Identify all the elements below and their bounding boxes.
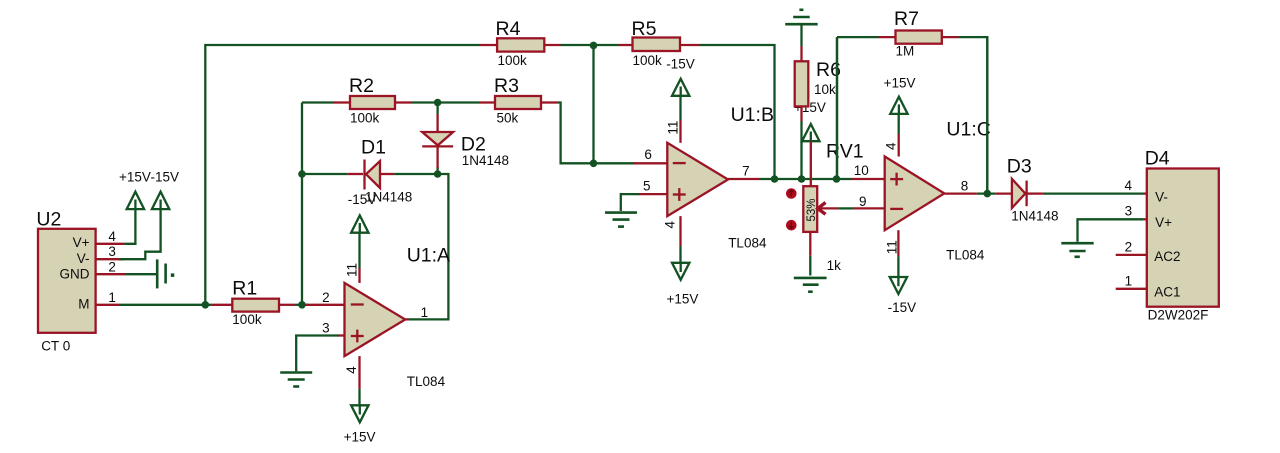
resistor R2 (334, 75, 411, 126)
svg-text:53%: 53% (806, 198, 818, 221)
power +15V arrow below U1:B (667, 263, 699, 307)
pin 1 of D4 (1116, 288, 1147, 290)
svg-text:4: 4 (344, 366, 359, 374)
pin 10 of U1:C (852, 178, 885, 180)
svg-text:-15V: -15V (666, 57, 695, 72)
pin 4 of U1:A (344, 356, 360, 409)
svg-text:5: 5 (643, 179, 651, 194)
svg-text:6: 6 (644, 147, 652, 162)
svg-text:100k: 100k (633, 53, 663, 68)
svg-text:1M: 1M (896, 44, 915, 59)
resistor R3 (479, 75, 557, 126)
wire D1 right to D2 junction and corner down to pin1 (394, 174, 448, 319)
pin 3 of D4 (1144, 218, 1147, 220)
pin 1 of U2 (96, 304, 119, 306)
svg-text:AC2: AC2 (1154, 249, 1180, 264)
svg-text:50k: 50k (497, 111, 519, 126)
svg-text:+15V: +15V (884, 75, 916, 90)
svg-text:1N4148: 1N4148 (462, 153, 509, 168)
svg-text:4: 4 (662, 221, 677, 229)
pin 11 of U1:A (345, 229, 360, 283)
wire vertical feedback left leg (301, 103, 303, 305)
node feedback left junction (298, 170, 306, 178)
op-amp U1:A TL084 (345, 245, 451, 390)
node R1/pin2/feedback junction (298, 301, 306, 309)
svg-text:V-: V- (1155, 190, 1168, 205)
svg-text:1: 1 (421, 305, 429, 320)
svg-text:11: 11 (666, 121, 681, 135)
svg-text:R1: R1 (232, 278, 257, 300)
wire U2 pin3 jog to -15V arrow (119, 206, 161, 259)
svg-text:D1: D1 (361, 137, 386, 159)
power -15V arrow at U2 (151, 170, 180, 210)
node pin6 junction (590, 160, 598, 168)
svg-text:U2: U2 (36, 209, 61, 231)
ground below RV1 (794, 278, 827, 292)
node R4/R5 junction (590, 42, 598, 50)
power +15V arrow above RV1 (802, 124, 820, 141)
wire RV1 wiper to U1:C pin9 (818, 207, 839, 209)
pin 4 of U1:B (662, 216, 680, 266)
svg-text:11: 11 (345, 263, 360, 277)
power -15V arrow below U1:C (888, 277, 917, 315)
node R2/R3/D2 junction (434, 99, 442, 107)
svg-text:1k: 1k (827, 258, 842, 273)
svg-text:R7: R7 (894, 8, 919, 30)
svg-text:CT 0: CT 0 (41, 339, 70, 354)
svg-text:9: 9 (859, 194, 867, 209)
pin 5 of U1:B (638, 193, 668, 195)
power +15V arrow below U1:A (344, 405, 376, 444)
svg-text:R5: R5 (632, 18, 657, 40)
power +15V arrow at U2 (119, 170, 151, 210)
svg-text:4: 4 (1125, 178, 1133, 193)
svg-text:TL084: TL084 (728, 236, 767, 251)
svg-text:RV1: RV1 (826, 141, 864, 163)
wire D2 top green (436, 103, 438, 115)
wire U2 pin4 to +15V arrow (124, 206, 135, 244)
pin 8 of U1:C output (944, 192, 976, 194)
flipped ground above R6 (785, 10, 818, 46)
pin 4 of U1:C (884, 110, 899, 157)
wire R1 right to U1:A pin2 (295, 304, 308, 306)
pin 7 of U1:B output (728, 178, 760, 180)
svg-text:4: 4 (108, 229, 116, 244)
node R7 left junction (833, 175, 841, 183)
power -15V arrow above U1:A (351, 215, 368, 232)
svg-text:AC1: AC1 (1154, 285, 1180, 300)
pin 4 of D4 (1144, 192, 1147, 194)
pin 2 of U2 (96, 273, 126, 275)
wire R3 right down to pin6 net (557, 103, 635, 164)
wire RV1 bottom to ground (809, 256, 811, 276)
node M junction (202, 301, 210, 309)
svg-text:3: 3 (1125, 204, 1133, 219)
resistor R4 (480, 18, 561, 68)
RV1 increment button (786, 188, 797, 199)
wire overlay R7 left vertical over labels (836, 37, 838, 179)
svg-text:3: 3 (108, 244, 116, 259)
wire R7 left vertical (836, 37, 838, 179)
op-amp U1:C TL084 (885, 119, 991, 263)
pin 11 of U1:C (884, 230, 899, 280)
wire pin3 to ground (296, 336, 338, 372)
wire R2 right to junction (411, 101, 479, 103)
pin 9 of U1:C (853, 207, 884, 209)
svg-text:1N4148: 1N4148 (365, 190, 412, 205)
node R5 vertical junction (771, 175, 779, 183)
svg-text:M: M (78, 297, 89, 312)
power -15V arrow above U1:B (666, 57, 695, 96)
svg-text:R2: R2 (349, 75, 374, 97)
wire R7 right segment and vertical down to U1:C output (959, 37, 988, 194)
svg-text:R3: R3 (494, 75, 519, 97)
node D1/D2 junction (434, 170, 442, 178)
svg-text:-15V: -15V (888, 300, 917, 315)
svg-text:+15V: +15V (344, 430, 376, 445)
svg-text:V+: V+ (1155, 215, 1172, 230)
svg-text:V+: V+ (73, 235, 90, 250)
wire R4 right to R4/R5 junction (561, 44, 619, 46)
resistor R6 (795, 46, 841, 179)
pin 3 of U2 (96, 258, 125, 260)
resistor R1 (212, 278, 295, 328)
wire pin5 to ground (621, 194, 639, 211)
resistor R7 (879, 8, 959, 59)
node R6 junction (798, 175, 806, 183)
diode D3 1N4148 (995, 156, 1058, 224)
wire D2 bottom green (436, 167, 438, 174)
svg-text:100k: 100k (498, 53, 528, 68)
pin 11 of U1:B (666, 92, 681, 143)
svg-text:1N4148: 1N4148 (1011, 209, 1058, 224)
component U2 CT sensor (36, 209, 95, 354)
wire M line: U2 pin1 to R1 (119, 304, 212, 306)
svg-text:2: 2 (108, 259, 116, 274)
svg-text:1: 1 (1125, 274, 1133, 289)
wire R5 right then down to U1:B output net (700, 45, 775, 179)
svg-text:+15V: +15V (667, 292, 699, 307)
svg-text:10k: 10k (814, 82, 836, 97)
pin 2 of U1:A (306, 304, 345, 306)
svg-text:GND: GND (60, 266, 90, 281)
RV1 decrement button (786, 220, 797, 231)
svg-text:U1:A: U1:A (407, 245, 450, 267)
pin 1 of U1:A output (405, 318, 408, 320)
pin 6 of U1:B (634, 162, 667, 164)
pin 2 of D4 (1116, 254, 1147, 256)
svg-text:D2W202F: D2W202F (1148, 308, 1209, 323)
wire U1:B output net (760, 178, 852, 180)
svg-text:V-: V- (77, 251, 90, 266)
battery symbol at U2 GND (157, 259, 174, 288)
node U1:C output junction (984, 190, 992, 198)
svg-text:U1:B: U1:B (731, 104, 774, 126)
wire overlay R7 right vertical over labels (986, 37, 988, 190)
wire feedback line through D1 (302, 173, 347, 175)
wire top net from M node up and across to R4 (205, 45, 480, 305)
svg-text:R4: R4 (496, 18, 521, 40)
resistor R5 (619, 18, 701, 68)
power +15V arrow above U1:C (884, 75, 916, 114)
op-amp U1:B TL084 (667, 104, 774, 251)
ground at U1:B pin5 (605, 213, 637, 227)
svg-text:2: 2 (322, 290, 330, 305)
wire junction down to pin6 net (592, 45, 594, 163)
svg-text:2: 2 (1125, 240, 1133, 255)
svg-text:100k: 100k (350, 111, 380, 126)
svg-text:8: 8 (961, 179, 969, 194)
component D4 D2W202F relay box (1145, 148, 1219, 323)
wire D3 to D4 pin4 (1043, 192, 1144, 194)
svg-text:U1:C: U1:C (946, 119, 990, 141)
svg-text:4: 4 (884, 142, 899, 150)
ground at D4 pin3 (1061, 243, 1093, 257)
svg-text:3: 3 (322, 320, 330, 335)
svg-text:D4: D4 (1145, 148, 1170, 170)
svg-text:-15V: -15V (151, 170, 180, 185)
diode D2 1N4148 (422, 114, 509, 168)
svg-text:10: 10 (854, 163, 869, 178)
wire R7 top left segment (837, 36, 879, 38)
svg-text:TL084: TL084 (407, 374, 446, 389)
wire U2 pin2 to battery (126, 273, 156, 275)
svg-text:7: 7 (742, 163, 750, 178)
ground at U1:A pin3 (280, 373, 312, 387)
pin 4 of U2 (96, 243, 125, 245)
svg-text:D3: D3 (1007, 156, 1032, 178)
potentiometer RV1 1k (803, 141, 863, 274)
svg-text:1: 1 (108, 290, 116, 305)
diode D1 1N4148 (347, 137, 412, 207)
wire D4 pin3 to ground (1078, 219, 1144, 242)
svg-text:11: 11 (884, 240, 899, 254)
svg-text:TL084: TL084 (946, 248, 985, 263)
pin 3 of U1:A (338, 334, 345, 336)
svg-text:+15V: +15V (119, 170, 151, 185)
svg-text:100k: 100k (232, 312, 262, 327)
wire U1:C output to D3 (977, 192, 996, 194)
wire R2 line left (302, 101, 334, 103)
